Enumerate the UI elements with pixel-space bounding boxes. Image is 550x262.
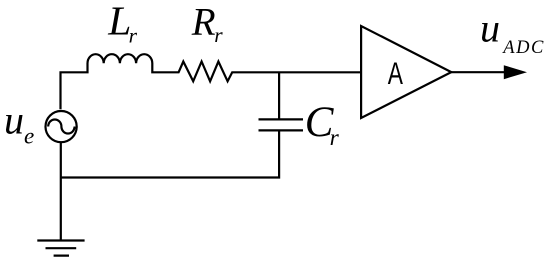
svg-text:R: R [191, 1, 216, 44]
svg-text:ADC: ADC [501, 38, 545, 58]
svg-text:r: r [330, 125, 340, 151]
svg-text:e: e [24, 124, 34, 149]
svg-text:A: A [388, 55, 403, 91]
svg-text:r: r [129, 23, 138, 47]
svg-text:u: u [480, 6, 500, 51]
svg-text:u: u [4, 98, 24, 143]
svg-text:r: r [214, 23, 223, 47]
